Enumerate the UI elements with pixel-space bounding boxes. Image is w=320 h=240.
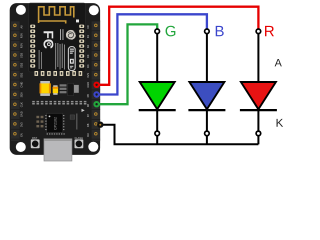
svg-text:D0: D0 — [86, 25, 90, 29]
wire blue: board pin to B anode — [96, 14, 207, 94]
header pins left — [13, 24, 17, 136]
label K cathode — [277, 119, 284, 127]
mounting hole bottom-right — [88, 142, 98, 152]
mounting hole bottom-left — [16, 142, 26, 152]
small yellow capacitor — [53, 85, 57, 87]
svg-text:SD2: SD2 — [20, 62, 24, 68]
node B cathode junction — [205, 131, 210, 136]
svg-text:EN: EN — [20, 133, 24, 137]
node B anode terminal — [205, 29, 210, 34]
header pins right — [94, 24, 98, 136]
yellow capacitor — [40, 81, 50, 84]
svg-text:SD3: SD3 — [20, 52, 24, 58]
pin labels right — [86, 25, 90, 137]
svg-text:SD0: SD0 — [20, 92, 24, 98]
pin labels left — [20, 25, 24, 137]
svg-text:3V3: 3V3 — [20, 122, 24, 127]
pad groups left of USB chip — [36, 116, 43, 128]
label G — [166, 26, 176, 37]
LED D3 red — [240, 34, 277, 145]
LED D1 green — [139, 34, 176, 145]
AI-thinker spiral logo — [66, 30, 76, 40]
svg-text:3V3: 3V3 — [86, 73, 90, 78]
svg-text:CMD: CMD — [20, 82, 24, 88]
svg-text:D7: D7 — [86, 113, 90, 117]
CP2102 USB chip — [47, 113, 63, 132]
node R cathode junction — [256, 131, 261, 136]
small component right of chip — [70, 115, 75, 119]
USB connector — [44, 139, 72, 161]
connection ring blue pin — [93, 91, 99, 97]
svg-text:D4: D4 — [86, 64, 90, 68]
PCB body — [10, 3, 100, 155]
model/version microtext — [59, 29, 62, 40]
wire red: board pin to R anode — [96, 7, 258, 85]
svg-text:RSV: RSV — [20, 33, 24, 39]
LED D2 blue — [188, 34, 225, 145]
FCC inner c — [47, 42, 51, 46]
label A anode — [275, 59, 282, 66]
svg-text:RST: RST — [32, 136, 38, 140]
ESP-12E module — [29, 3, 86, 72]
label B — [216, 26, 224, 36]
svg-text:GND: GND — [20, 111, 24, 117]
svg-text:CLK: CLK — [20, 102, 24, 107]
svg-text:GND: GND — [86, 82, 90, 88]
node G cathode junction — [155, 131, 160, 136]
header pin separators — [11, 21, 100, 140]
label R — [265, 26, 274, 36]
wire green: board pin to G anode — [96, 24, 157, 104]
left pin header — [11, 21, 20, 142]
svg-text:D6: D6 — [86, 103, 90, 107]
svg-text:FLASH: FLASH — [75, 136, 83, 140]
svg-text:CP2102: CP2102 — [54, 117, 58, 130]
svg-text:RSV: RSV — [20, 43, 24, 49]
small SMD bars — [60, 84, 67, 86]
node R anode terminal — [256, 29, 261, 34]
module right castellated pads — [79, 25, 84, 68]
module status LED — [76, 20, 79, 23]
SMD resistor row — [32, 101, 86, 105]
footprint dashes above USB — [47, 133, 65, 134]
wire black: ground bus — [100, 125, 258, 145]
svg-text:D2: D2 — [86, 44, 90, 48]
connection ring red pin — [93, 82, 99, 88]
module left castellated pads — [30, 25, 35, 68]
module bottom pads row — [35, 71, 83, 76]
svg-text:D3: D3 — [86, 54, 90, 58]
svg-text:A0: A0 — [20, 25, 24, 29]
NodeMCU ESP8266 board U1 — [10, 3, 100, 161]
right pin header — [92, 21, 101, 142]
mounting hole top-right — [89, 5, 99, 15]
FCC logo — [43, 31, 53, 48]
mounting hole top-left — [16, 5, 26, 15]
node G anode terminal — [155, 29, 160, 34]
connection ring black ground pin — [97, 122, 103, 128]
svg-text:D5: D5 — [86, 94, 90, 98]
small IC — [68, 83, 74, 95]
svg-text:SD1: SD1 — [20, 72, 24, 78]
svg-text:RX: RX — [86, 133, 90, 137]
svg-text:D8: D8 — [86, 123, 90, 127]
connection ring green pin — [93, 101, 99, 107]
WiFi certification logo capsule — [68, 47, 75, 71]
ESP8266MOD microtext block — [39, 43, 65, 70]
svg-text:D1: D1 — [86, 34, 90, 38]
PCB meander antenna — [39, 7, 74, 24]
